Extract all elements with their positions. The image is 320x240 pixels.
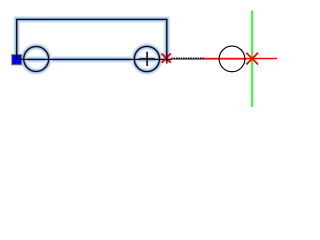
wire : corner core lines redrawn over grip — [17, 54, 23, 60]
right wheel core — [134, 46, 159, 71]
wire : red tracking ray to the right edge — [204, 58, 277, 59]
wire : highlighted rectangle glow (car body) — [17, 19, 167, 59]
wire : green vertical tracking line — [251, 10, 252, 107]
node C : red X snap marker at cursor intersection — [246, 53, 258, 65]
dragged circle : black wheel copy following cursor — [219, 46, 245, 72]
node B : center cross mark in right wheel — [140, 52, 154, 66]
wire : right edge core redrawn over snap marker — [166, 52, 168, 63]
rectangle body core line — [17, 19, 167, 59]
left wheel core — [24, 47, 49, 72]
wire : red first dash of drag line — [171, 58, 173, 60]
wire : left wheel circle glow — [24, 47, 49, 72]
wire : thin black rubber-band base line — [171, 58, 247, 61]
node A : red X snap marker at rectangle bottom-right corner — [162, 54, 171, 63]
wire : right wheel circle glow — [134, 46, 159, 71]
wire : black dotted drag line — [171, 57, 204, 59]
wire : bottom edge core redrawn over snap marker — [165, 58, 172, 60]
grip square : blue selection grip at bottom-left corner — [11, 54, 22, 65]
